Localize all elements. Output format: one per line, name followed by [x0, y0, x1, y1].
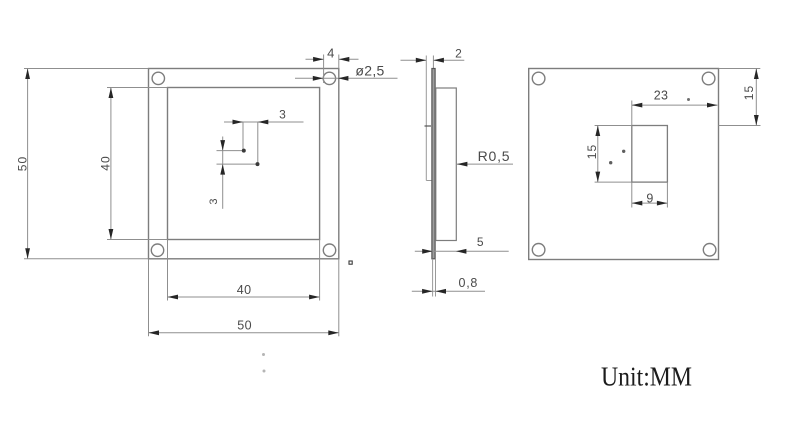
svg-text:50: 50: [237, 319, 252, 333]
dim 15 right extension top: [719, 68, 761, 70]
side view front face line: [425, 56, 427, 181]
svg-text:Unit:MM: Unit:MM: [601, 362, 692, 392]
back slot bottom extension: [595, 181, 632, 183]
dim 15 right line: [755, 69, 757, 126]
dim 15 right extension bottom: [719, 125, 761, 127]
svg-text:40: 40: [99, 155, 113, 170]
speck dot d: [263, 370, 265, 372]
dim 40 bottom extension left: [167, 240, 169, 301]
side view tick lower: [426, 180, 432, 182]
dim 2 line: [401, 59, 427, 61]
hole top-left: [152, 72, 164, 84]
speck dot a: [623, 150, 625, 152]
dim 40 left extension top: [107, 87, 168, 89]
back hole bottom-left: [532, 244, 545, 257]
feature step vertical line a: [242, 122, 244, 149]
back slot top extension: [595, 125, 632, 127]
svg-text:9: 9: [646, 192, 653, 206]
hole bottom-left: [151, 244, 163, 256]
svg-text:2: 2: [455, 47, 462, 61]
dim 50 left extension top: [24, 68, 149, 70]
dim 50 bottom extension right: [338, 259, 340, 337]
dim 3 vertical line: [222, 137, 224, 209]
svg-text:15: 15: [742, 85, 756, 100]
back slot rectangle: [632, 126, 668, 183]
svg-text:0,8: 0,8: [459, 276, 478, 290]
dim 0.8 line: [412, 290, 485, 292]
dim 50 bottom line: [149, 332, 339, 334]
dim dia2.5 line across and leader: [323, 77, 397, 79]
feature step horizontal line b: [217, 163, 258, 165]
stray dot near 23: [688, 99, 690, 101]
dim 3 horizontal line: [224, 121, 304, 123]
back hole bottom-right: [703, 244, 716, 257]
svg-text:40: 40: [237, 283, 252, 297]
back hole top-right: [702, 72, 715, 85]
svg-text:5: 5: [477, 235, 484, 249]
dim 5 line: [415, 250, 509, 252]
dim 50 left extension bottom: [24, 258, 149, 260]
dim 50 bottom extension left: [148, 259, 150, 337]
feature junction dot a: [242, 149, 245, 152]
side view extension for 2 right: [432, 56, 434, 69]
dim dia2.5 line left: [295, 77, 323, 79]
dim 15 left line: [597, 126, 599, 183]
speck dot c: [263, 354, 265, 356]
back view outer plate 50x50: [529, 69, 719, 260]
svg-text:4: 4: [327, 46, 334, 61]
dim 9 line: [632, 202, 668, 204]
feature junction dot b: [256, 163, 259, 166]
side view tick upper: [425, 125, 432, 127]
svg-text:R0,5: R0,5: [478, 148, 511, 164]
svg-text:ø2,5: ø2,5: [355, 63, 384, 79]
dim 23 line: [632, 104, 718, 106]
feature step horizontal line a: [217, 150, 245, 152]
svg-text:50: 50: [16, 156, 30, 171]
dim 4 line: [306, 58, 324, 60]
svg-text:15: 15: [585, 144, 599, 159]
svg-text:3: 3: [279, 107, 286, 121]
dim 9 extension right: [666, 182, 668, 207]
side view boss rectangle 5mm: [436, 88, 457, 241]
speck dot b: [610, 162, 612, 164]
svg-text:3: 3: [208, 198, 220, 204]
dim 40 bottom line: [168, 296, 320, 298]
hole bottom-right: [323, 244, 335, 256]
dim 4 extension left: [323, 55, 325, 84]
front view inner square 40x40: [168, 88, 320, 240]
dim 9 extension left: [631, 182, 633, 207]
back hole top-left: [532, 72, 545, 85]
small datum square mark: [349, 261, 352, 264]
dim 23 extension left: [631, 101, 633, 126]
dim 40 left line: [110, 88, 112, 240]
dim 40 bottom extension right: [319, 240, 321, 301]
dim 50 left line: [27, 69, 29, 259]
dim R0.5 leader: [457, 163, 513, 165]
feature step vertical line b: [257, 122, 259, 163]
side view plate tail lines: [432, 259, 434, 297]
hole top-right: [323, 72, 335, 84]
svg-text:23: 23: [654, 89, 669, 103]
dim 4 extension right: [338, 55, 340, 69]
front view outer plate 50x50: [149, 69, 339, 259]
side view plate body (0.8 thick): [432, 69, 435, 259]
dim 40 left extension bottom: [107, 239, 168, 241]
